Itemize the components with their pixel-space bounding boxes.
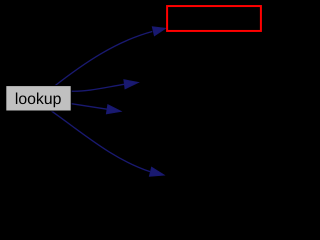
wire edge1 arrowhead: [152, 27, 166, 36]
wire edge2 curve: [71, 84, 125, 91]
node lookup: [6, 86, 71, 111]
node lookup label: [16, 93, 61, 108]
wire edge4 arrowhead: [149, 167, 164, 176]
wire edge2 arrowhead: [124, 80, 139, 90]
node current (red highlighted): [167, 6, 261, 31]
wire edge3 arrowhead: [106, 104, 121, 114]
wire edge3 line: [71, 104, 108, 110]
wire edge4 curve: [51, 111, 150, 172]
wire edge1 curve: [54, 32, 152, 87]
